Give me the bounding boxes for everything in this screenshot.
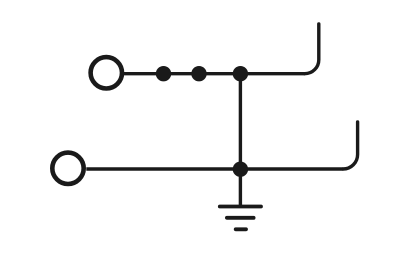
wire: upper conductor horizontal run	[124, 72, 305, 75]
junction dot D1	[156, 66, 171, 81]
wire: lower-right elbow to mid stub	[343, 122, 358, 169]
ground symbol: middle bar	[227, 216, 254, 220]
wire: lower conductor horizontal run	[86, 167, 343, 170]
junction dot D4 (ground tap)	[233, 162, 248, 177]
ground symbol: top bar	[220, 205, 261, 209]
junction dot D2	[191, 66, 206, 81]
wire: upper-right elbow to top stub	[305, 24, 319, 74]
terminal circle T1 (upper feed-through contact)	[91, 57, 122, 88]
junction dot D3 (bridge tap)	[233, 66, 248, 81]
terminal circle T2 (lower feed-through contact)	[52, 153, 83, 184]
ground symbol: stem	[239, 169, 242, 206]
wire: vertical bridge between conductors	[239, 74, 242, 170]
ground symbol: bottom bar	[236, 227, 246, 231]
